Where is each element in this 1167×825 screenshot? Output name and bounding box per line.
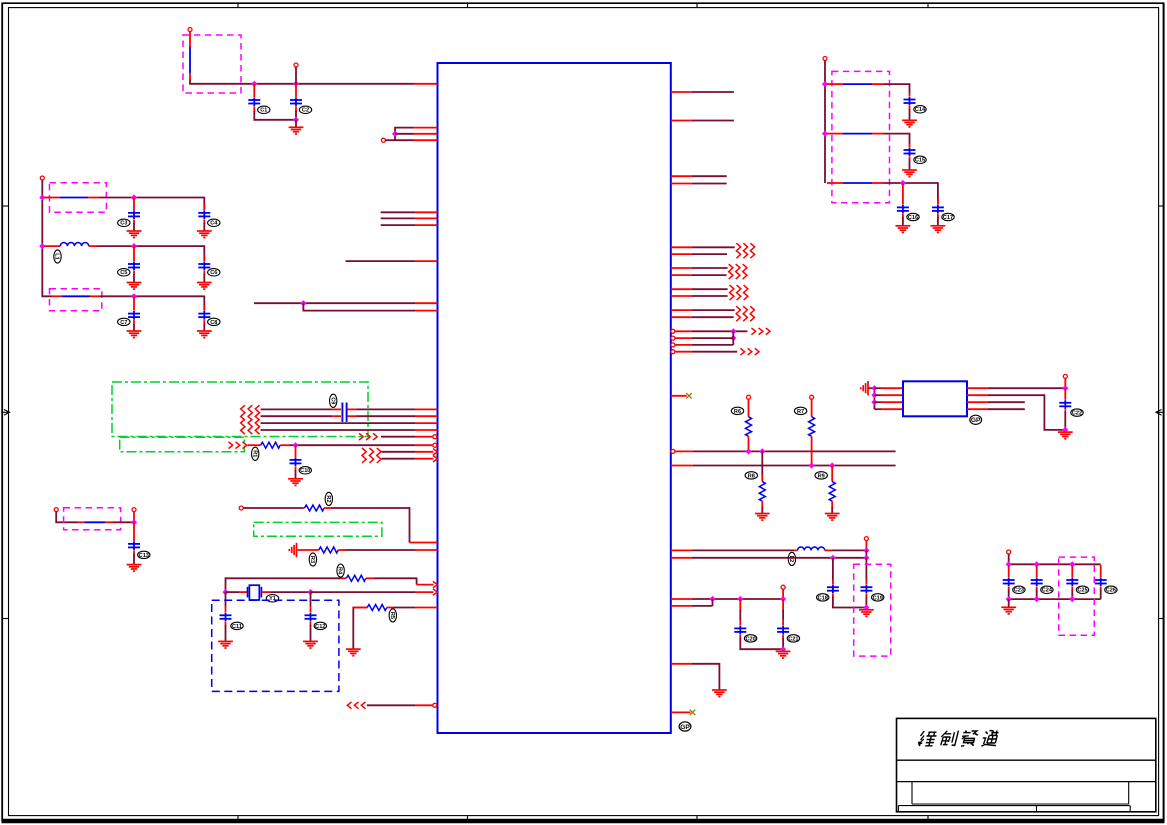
svg-text:C21: C21 xyxy=(788,636,798,642)
wire rail1 right xyxy=(884,84,910,93)
svg-text:C11: C11 xyxy=(232,624,242,630)
wire u2 out4 xyxy=(988,408,1025,410)
wire right y176.2 xyxy=(692,175,727,177)
designator label C20 xyxy=(744,635,756,643)
pin stub u2 right y409.2 xyxy=(967,408,988,410)
capacitor C9 left lead r1 xyxy=(332,408,341,410)
wire rail3 corner xyxy=(42,295,52,298)
designator label C16 xyxy=(907,213,919,221)
junction rail2 right xyxy=(822,130,828,136)
port chevron y331 2 xyxy=(759,328,763,335)
designator label C21 xyxy=(787,635,799,643)
pin stub right y344.9 xyxy=(675,344,692,346)
junction y599 a xyxy=(709,596,715,602)
junction node at ground stem xyxy=(293,117,299,123)
ground GND7 xyxy=(197,331,212,338)
pin stub y133.8 xyxy=(414,133,438,135)
capacitor C13 xyxy=(128,541,140,550)
crystal Y1 right lead xyxy=(261,591,270,593)
pin stub y592.1 xyxy=(416,591,434,593)
FB6 right lead xyxy=(872,133,884,135)
resistor R9 top lead xyxy=(831,466,833,482)
wire u2 left y388.2 xyxy=(874,387,881,389)
wire row y133.8 xyxy=(395,133,414,135)
port chevron row437 1 xyxy=(359,433,363,440)
pin stub right y338.1 xyxy=(675,337,692,339)
svg-text:C5: C5 xyxy=(120,270,127,276)
wire bus vertical x874.4 xyxy=(873,388,875,409)
capacitor C24 bottom lead xyxy=(1036,587,1038,600)
pin stub y140.2 xyxy=(414,139,438,141)
junction rail2 C5 xyxy=(131,243,137,249)
wire net VCC1 horizontal xyxy=(190,80,414,84)
junction node R1/C10 xyxy=(292,442,298,448)
designator label C2 xyxy=(299,106,311,114)
resistor R4 right lead xyxy=(366,577,374,579)
capacitor C18 top lead xyxy=(832,558,834,584)
svg-text:GP: GP xyxy=(971,417,981,424)
designator label C10 xyxy=(299,467,311,475)
capacitor C26 top lead xyxy=(1100,565,1102,577)
resistor R1 right lead xyxy=(280,444,289,446)
wire row y508 xyxy=(243,507,303,509)
inductor L1 left lead xyxy=(44,245,60,247)
svg-text:C12: C12 xyxy=(315,624,325,630)
wire crystal right xyxy=(270,591,310,593)
junction crystal right xyxy=(307,589,313,595)
resistor R1 left lead xyxy=(248,444,261,446)
port chevron row445 3 xyxy=(243,442,247,449)
FB6 left lead xyxy=(827,133,843,135)
capacitor C15 top lead xyxy=(909,144,911,147)
net entry mark left pair2 2 xyxy=(248,419,252,434)
capacitor C11 xyxy=(220,613,232,622)
designator label C25 xyxy=(1076,586,1088,594)
ferrite bead FB5 body xyxy=(843,83,872,85)
wire right pair2b xyxy=(692,274,727,276)
svg-text:GP: GP xyxy=(680,724,690,731)
svg-text:C23: C23 xyxy=(1014,588,1024,594)
junction rail3 C16 xyxy=(900,180,906,186)
net entry mark pair2 1 xyxy=(729,264,733,279)
pin stub u2 left y402.2 xyxy=(882,401,903,403)
capacitor C8 top lead xyxy=(203,305,205,311)
svg-text:R8: R8 xyxy=(748,473,755,479)
designator label C6 xyxy=(208,269,220,277)
capacitor C24 xyxy=(1031,577,1043,586)
resistor R6 top lead xyxy=(748,399,750,417)
wire row y303.2 xyxy=(254,302,416,304)
pin stub right y92 xyxy=(671,91,692,93)
net entry mark pair4 2 xyxy=(743,306,747,321)
wire row y550 xyxy=(346,549,416,551)
capacitor C23 top lead xyxy=(1008,565,1010,577)
designator label C22 xyxy=(1071,409,1083,417)
wire rail1 drop right xyxy=(203,197,205,210)
junction botrail 2 xyxy=(1034,596,1040,602)
power port P4 circle xyxy=(40,176,44,180)
net entry mark left pair1 2 xyxy=(248,405,252,420)
resistor R7 xyxy=(809,417,815,437)
svg-text:C18: C18 xyxy=(818,595,828,601)
svg-text:L1: L1 xyxy=(54,253,60,260)
capacitor C19 bottom lead xyxy=(865,594,867,608)
ground stem wire xyxy=(295,120,297,127)
capacitor C22 bottom lead xyxy=(1064,409,1066,430)
power port P2 circle xyxy=(294,63,298,67)
capacitor C6 bottom lead xyxy=(203,271,205,283)
svg-text:C17: C17 xyxy=(943,215,953,221)
wire from P3 xyxy=(385,139,395,141)
capacitor C19 top lead xyxy=(865,558,867,584)
pin stub y409.4 xyxy=(416,408,438,410)
wire row y557.8 xyxy=(692,557,867,559)
capacitor C21 top lead xyxy=(782,599,784,625)
capacitor C11 bottom lead xyxy=(225,622,227,641)
junction y331.3 xyxy=(730,328,736,334)
svg-text:R7: R7 xyxy=(797,409,804,415)
ground GND8 xyxy=(288,479,303,486)
wire right pair1b xyxy=(692,253,727,255)
capacitor C23 bottom lead xyxy=(1008,587,1010,600)
capacitor C7 bottom lead xyxy=(133,320,135,330)
pin stub y584.6 xyxy=(417,584,434,586)
junction botrail 1 xyxy=(1006,596,1012,602)
junction node C13 xyxy=(131,519,137,525)
junction node at C2 xyxy=(293,81,299,87)
wire right y92 xyxy=(692,91,734,93)
port chevron row705 2 xyxy=(354,702,358,709)
capacitor C12 xyxy=(305,613,317,622)
capacitor C17 top lead xyxy=(937,198,939,204)
resistor R5 right lead xyxy=(387,607,393,609)
capacitor C3 top lead xyxy=(133,198,135,211)
junction node xyxy=(392,131,398,137)
capacitor C13 bottom lead xyxy=(133,550,135,564)
FB4 left lead xyxy=(77,521,84,523)
capacitor C22 xyxy=(1059,400,1071,409)
wire right pair3a xyxy=(692,288,728,290)
net port P10 circle xyxy=(781,585,785,589)
svg-text:R4: R4 xyxy=(337,567,343,575)
IC U2 body xyxy=(903,381,967,416)
designator label R7 xyxy=(794,407,806,415)
pin stub right pair2a xyxy=(671,267,692,269)
wire u2 out1 xyxy=(988,387,1066,389)
junction out1 xyxy=(1062,385,1068,391)
FB3 right lead xyxy=(90,295,100,297)
ground GND1 xyxy=(289,127,304,134)
svg-text:Y1: Y1 xyxy=(269,596,276,602)
capacitor C9 right lead r1 xyxy=(348,408,357,410)
designator label C13 xyxy=(138,551,150,559)
designator label C23 xyxy=(1013,586,1025,594)
svg-text:C7: C7 xyxy=(120,320,127,326)
junction rail2 R7 xyxy=(808,462,814,468)
resistor R3 right lead xyxy=(338,549,346,551)
logo text Wistron xyxy=(917,731,999,747)
wire vertical bus join xyxy=(394,127,396,140)
junction node at C1 xyxy=(251,81,257,87)
capacitor C26 xyxy=(1095,577,1107,586)
junction y557.8 a xyxy=(830,555,836,561)
pin stub y212.3 xyxy=(416,211,438,213)
resistor R6 xyxy=(746,417,752,437)
char 1 wei xyxy=(918,731,926,746)
wire right pair3b xyxy=(692,295,728,297)
pin stub y423.1 xyxy=(416,422,438,424)
wire from P6 xyxy=(56,512,77,523)
resistor R7 top lead xyxy=(811,399,813,417)
net entry mark pair3 2 xyxy=(737,285,741,300)
wire from P11 xyxy=(1064,378,1066,386)
power port P1 circle xyxy=(188,28,192,32)
capacitor C7 xyxy=(128,311,140,320)
pin stub y218.4 xyxy=(416,217,438,219)
capacitor C14 top lead xyxy=(909,93,911,97)
pin arrow y458.7 xyxy=(433,456,438,462)
junction rail1 R6 xyxy=(745,448,751,454)
wire row y705.3 xyxy=(367,704,416,706)
pin stub right pair3b xyxy=(671,295,692,297)
designator label C26 xyxy=(1105,586,1117,594)
junction node y303 xyxy=(300,300,306,306)
capacitor C6 top lead xyxy=(203,255,205,261)
svg-text:C25: C25 xyxy=(1077,588,1087,594)
capacitor C20 xyxy=(734,626,746,635)
capacitor C23 xyxy=(1003,577,1015,586)
DNI box around C25 (magenta dashed) xyxy=(1059,557,1095,635)
port chevron y351 2 xyxy=(748,348,752,355)
wire rail1 xyxy=(99,197,204,199)
ferrite bead FB2 body xyxy=(60,197,88,199)
svg-text:C14: C14 xyxy=(915,107,926,113)
ferrite bead FB1 (straight body) xyxy=(189,47,191,73)
wire vertical join x733.3 xyxy=(732,331,734,345)
pin stub right pair1b xyxy=(671,253,692,255)
net entry mark left pair1 3 xyxy=(255,405,259,420)
pin stub y416.2 xyxy=(416,415,438,417)
capacitor C17 xyxy=(932,205,944,214)
wire rail2 xyxy=(693,465,896,467)
pin stub y445.2 xyxy=(416,444,433,446)
pin stub right y663.8 xyxy=(671,663,692,665)
wire right pair2a xyxy=(692,267,728,269)
resistor R3 left lead xyxy=(298,549,319,551)
net port P7 circle xyxy=(132,508,136,512)
net entry mark pair4 3 xyxy=(750,306,754,321)
DNI box FB3 (magenta dashed) xyxy=(50,289,102,311)
port chevron row437 3 xyxy=(373,433,377,440)
capacitor C9 right lead r2 xyxy=(348,415,357,417)
crystal Y1 left lead xyxy=(240,591,248,593)
svg-text:C20: C20 xyxy=(745,636,755,642)
GP label U1 xyxy=(679,722,691,731)
DNI box FB4 (magenta dashed) xyxy=(64,508,121,530)
inverted pin bubble right y344.9 xyxy=(671,343,675,347)
svg-text:C24: C24 xyxy=(1042,588,1053,594)
DNI box around crystal caps (blue dashed) xyxy=(212,600,339,691)
capacitor C25 top lead xyxy=(1071,565,1073,577)
FB2 right lead xyxy=(88,197,99,199)
no-connect mark xyxy=(690,710,696,716)
pin stub y607.5 xyxy=(416,607,438,609)
ferrite bead FB3 body xyxy=(62,295,90,297)
junction rail1 xyxy=(39,194,45,200)
designator label C4 xyxy=(208,219,220,227)
port chevron row445 1 xyxy=(229,442,233,449)
wire P2 down xyxy=(295,67,297,84)
capacitor C16 xyxy=(897,205,909,214)
inductor L2 left lead xyxy=(795,549,798,551)
pin stub y225.1 xyxy=(416,224,438,226)
pin stub u2 right y388.2 xyxy=(967,387,988,389)
svg-text:R2: R2 xyxy=(325,495,331,502)
wire stub row y261.1 xyxy=(346,260,416,262)
ground GND10 xyxy=(218,641,233,648)
capacitor C14 bottom lead xyxy=(909,106,911,120)
capacitor C10 bottom lead xyxy=(295,466,297,478)
wire row y416.2 left xyxy=(261,415,333,417)
resistor R1 xyxy=(261,442,281,448)
capacitor C1 top lead xyxy=(253,84,255,97)
net entry mark left pair2 1 xyxy=(241,419,245,434)
capacitor C16 bottom lead xyxy=(902,214,904,226)
capacitor C5 xyxy=(128,261,140,270)
capacitor C16 top lead xyxy=(902,183,904,204)
designator label C11 xyxy=(231,622,243,630)
designator label C8 xyxy=(208,318,220,326)
net port P13 circle xyxy=(810,395,814,399)
capacitor C2 xyxy=(290,97,302,106)
svg-text:C1: C1 xyxy=(260,108,267,114)
ground GND9 (rotated) xyxy=(289,543,296,557)
wire from P10 xyxy=(782,589,784,597)
capacitor C20 top lead xyxy=(739,599,741,625)
capacitor C8 bottom lead xyxy=(203,320,205,330)
FB5 right lead xyxy=(872,83,884,85)
pin stub rail1 xyxy=(675,450,693,452)
pin stub right y176.2 xyxy=(671,175,692,177)
pin stub right y599 xyxy=(671,598,692,600)
wire left bus vertical xyxy=(41,180,43,296)
GP label U2 xyxy=(970,415,982,424)
designator label C3 xyxy=(118,219,130,227)
capacitor C5 bottom lead xyxy=(133,271,135,283)
title block xyxy=(897,718,1156,811)
wire right pair1a xyxy=(692,246,735,248)
port chevron row705 3 xyxy=(361,702,365,709)
svg-text:C6: C6 xyxy=(210,270,217,276)
resistor R4 left lead xyxy=(341,577,346,579)
ferrite bead FB4 body xyxy=(84,521,105,523)
svg-text:C2: C2 xyxy=(302,108,309,114)
wire stub row y225.1 xyxy=(381,224,416,226)
pin stub u2 right y402.2 xyxy=(967,401,988,403)
resistor R7 bottom lead xyxy=(811,436,813,463)
net entry mark pair y451/458 1 xyxy=(362,448,366,463)
pin stub right pair4a xyxy=(671,309,692,311)
pin stub right y605.9 xyxy=(671,605,692,607)
ground GND18 xyxy=(859,610,874,617)
capacitor C4 top lead xyxy=(203,204,205,210)
designator label R3 xyxy=(309,553,317,566)
net entry mark pair2 2 xyxy=(736,264,740,279)
net entry mark pair2 3 xyxy=(743,264,747,279)
junction y550.4 xyxy=(863,547,869,553)
svg-text:L2: L2 xyxy=(788,556,794,563)
power port P9 circle xyxy=(864,537,868,541)
pin stub y542.5 xyxy=(410,542,438,544)
wire right y351.7 xyxy=(692,351,738,353)
pin stub u2 left y409.2 xyxy=(882,408,903,410)
ground GND15 xyxy=(902,170,917,177)
resistor R9 xyxy=(829,482,835,502)
capacitor C4 xyxy=(198,210,210,219)
capacitor C10 top lead xyxy=(295,445,297,457)
wire right pair4a xyxy=(692,309,735,311)
capacitor C9 left lead r2 xyxy=(332,415,341,417)
crystal Y1 xyxy=(248,585,262,600)
resistor R2 left lead xyxy=(303,507,305,509)
pin stub right y712.4 xyxy=(671,711,691,713)
ground GND4 xyxy=(127,283,142,290)
designator label R4 xyxy=(337,564,345,577)
FB2 left lead xyxy=(44,197,60,199)
wire L2 to node xyxy=(832,549,866,551)
resistor R8 xyxy=(759,482,765,502)
designator label R2 xyxy=(325,492,333,505)
svg-text:R3: R3 xyxy=(309,556,315,563)
ground GND13 xyxy=(127,565,142,572)
capacitor C1 xyxy=(248,97,260,106)
wire u2 left y409.2 xyxy=(874,408,881,410)
capacitor C20 bottom lead xyxy=(740,635,783,649)
svg-text:C19: C19 xyxy=(873,595,883,601)
wire u2 left y395.2 xyxy=(874,394,881,396)
port chevron row437 2 xyxy=(366,433,370,440)
ferrite bead FB7 body xyxy=(843,182,872,184)
pin stub y127.6 xyxy=(414,127,438,129)
net entry mark pair3 1 xyxy=(730,285,734,300)
capacitor C18 bottom lead xyxy=(833,594,867,608)
capacitor C3 xyxy=(128,210,140,219)
inverted pin bubble y705.3 xyxy=(433,703,437,707)
FB4 right lead xyxy=(105,521,113,523)
option box (green dash-dot) 1 xyxy=(112,382,368,437)
inductor L2 xyxy=(798,547,825,550)
designator label R8 xyxy=(745,472,757,480)
wire gnd stem xyxy=(1008,599,1010,607)
junction gnd node2 xyxy=(780,646,786,652)
svg-text:C22: C22 xyxy=(1072,411,1082,417)
ground GND24 xyxy=(825,514,840,521)
junction rail1 right xyxy=(822,81,828,87)
designator label C1 xyxy=(258,106,270,114)
junction gnd node xyxy=(863,604,869,610)
wire row y409.4 right xyxy=(356,408,415,410)
pin stub u2 left y395.2 xyxy=(882,394,903,396)
port chevron y331 1 xyxy=(751,328,755,335)
capacitor C9 plates xyxy=(342,403,346,422)
char 2 chuang xyxy=(939,731,952,745)
no-connect mark y395.8 xyxy=(686,393,692,399)
junction botrail 3 xyxy=(1069,596,1075,602)
pin stub right pair1a xyxy=(671,246,692,248)
junction toprail 1 xyxy=(1006,561,1012,567)
designator label C18 xyxy=(817,594,829,602)
designator label C9 xyxy=(329,394,337,407)
